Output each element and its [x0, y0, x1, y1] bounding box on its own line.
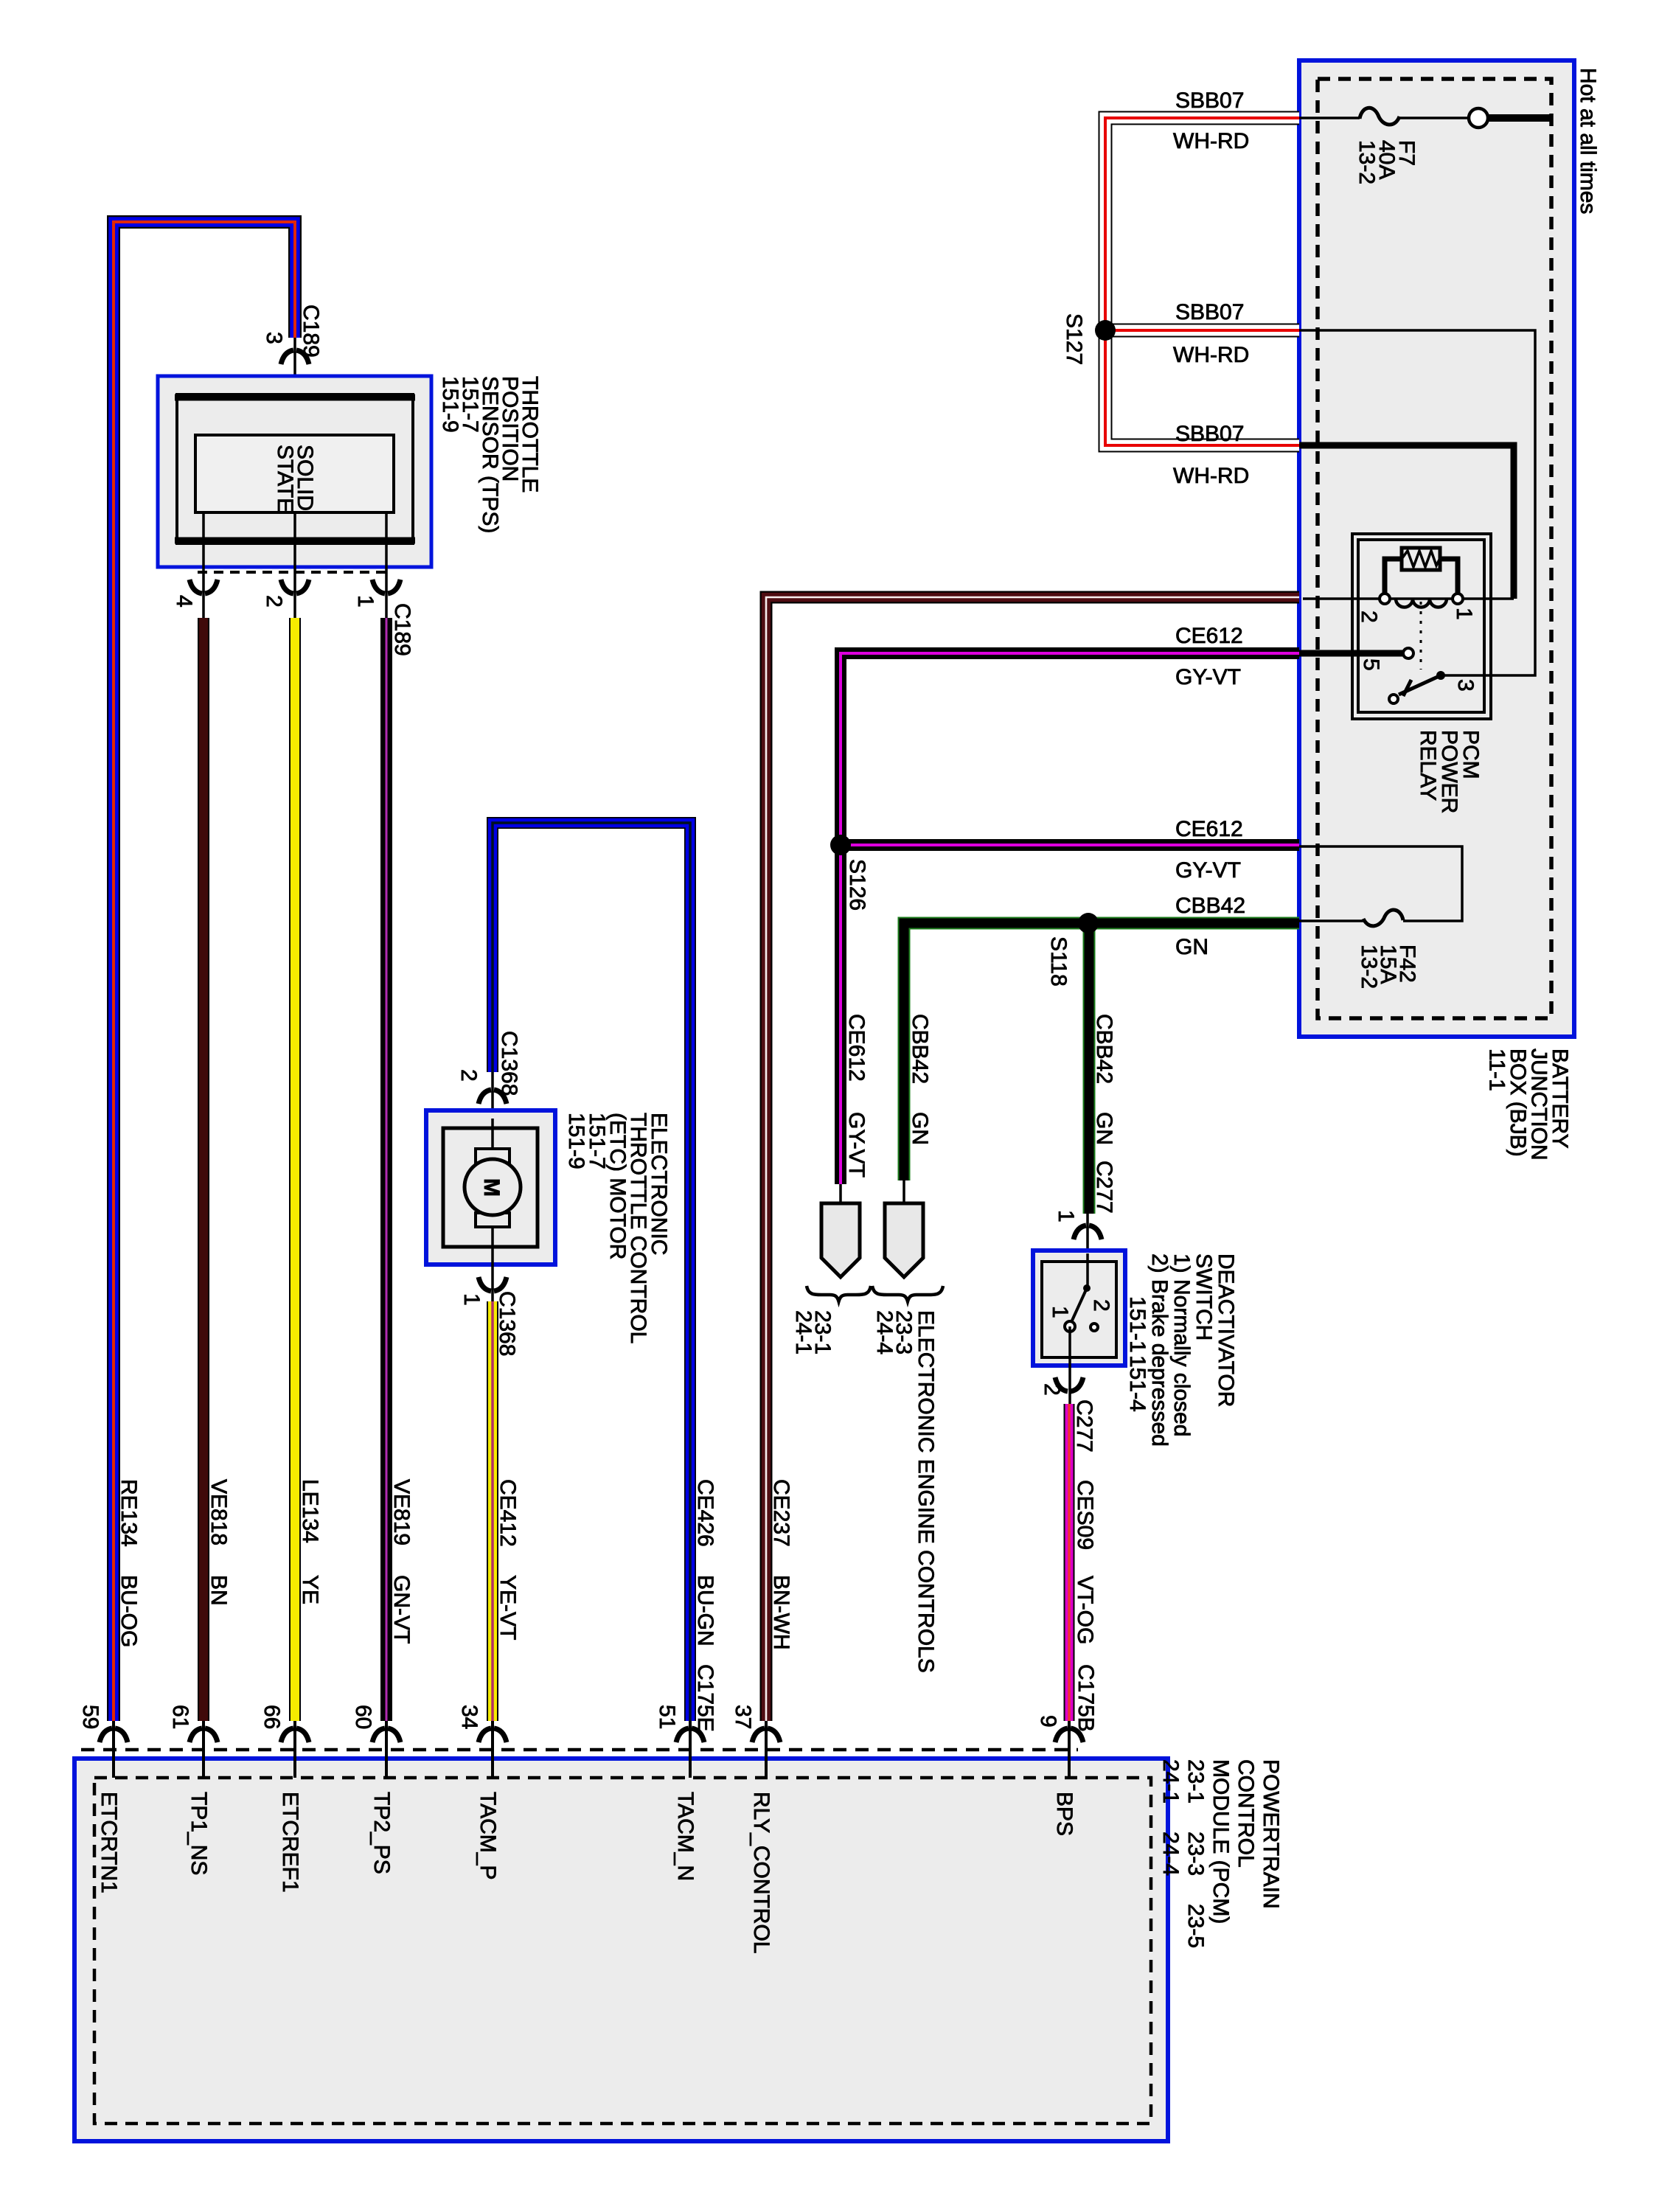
- relay pin numbers: [1357, 611, 1381, 623]
- svg-text:YE: YE: [298, 1575, 322, 1604]
- svg-text:WH-RD: WH-RD: [1173, 129, 1249, 153]
- fuse F7 40A: [1299, 108, 1553, 184]
- svg-text:3: 3: [262, 332, 286, 344]
- svg-text:CES09: CES09: [1073, 1480, 1097, 1550]
- svg-text:BU-GN: BU-GN: [693, 1575, 717, 1646]
- svg-text:C175B: C175B: [1074, 1664, 1098, 1732]
- svg-text:C277: C277: [1072, 1399, 1096, 1453]
- SBB07 / WH-RD labels: [1173, 88, 1249, 488]
- svg-text:C189: C189: [390, 603, 414, 656]
- svg-text:BN-WH: BN-WH: [769, 1575, 793, 1650]
- deactivator switch contacts: [1048, 1253, 1113, 1332]
- svg-text:151-4: 151-4: [1125, 1355, 1150, 1412]
- wire CE426 BU-GN (TACM_N): [493, 823, 690, 1721]
- svg-text:1: 1: [1048, 1306, 1072, 1318]
- svg-text:SBB07: SBB07: [1175, 422, 1244, 446]
- svg-text:BU-OG: BU-OG: [116, 1575, 141, 1647]
- wire VE819 GN-VT (TP2_PS): [380, 618, 392, 1721]
- svg-text:POWERTRAIN: POWERTRAIN: [1259, 1759, 1283, 1909]
- svg-text:2: 2: [1040, 1383, 1064, 1396]
- motor M symbol: [465, 1119, 521, 1301]
- PCM power relay: [1299, 534, 1514, 813]
- CE612 labels (vertical run): [844, 1014, 869, 1178]
- svg-text:24-4: 24-4: [872, 1310, 897, 1354]
- deactivator switch name: [1125, 1253, 1238, 1447]
- svg-text:11-1: 11-1: [1485, 1048, 1509, 1091]
- svg-text:C1368: C1368: [497, 1031, 521, 1096]
- svg-text:3: 3: [1453, 679, 1478, 692]
- svg-text:SBB07: SBB07: [1175, 300, 1244, 324]
- svg-text:S118: S118: [1046, 936, 1071, 987]
- svg-text:CBB42: CBB42: [908, 1014, 932, 1084]
- svg-text:51: 51: [655, 1705, 679, 1729]
- wire CE237 BN-WH (RLY_CONTROL): [766, 597, 1299, 1721]
- PCM pin 61 TP1_NS: [168, 1705, 218, 1875]
- relay switch blade pin3-pin5: [1420, 602, 1422, 669]
- svg-text:MODULE (PCM): MODULE (PCM): [1208, 1759, 1233, 1924]
- svg-text:S126: S126: [845, 859, 869, 911]
- splice S126: [845, 859, 869, 911]
- connector C189 pin 3: [262, 305, 323, 435]
- wire CE612 GY-VT to F42: [841, 817, 1299, 883]
- svg-text:2: 2: [1089, 1299, 1113, 1312]
- PCM pin 59 ETCRTN1: [78, 1705, 128, 1893]
- svg-text:1: 1: [459, 1293, 484, 1306]
- svg-text:1: 1: [1452, 608, 1476, 620]
- svg-text:13-2: 13-2: [1354, 140, 1379, 184]
- svg-text:GY-VT: GY-VT: [844, 1112, 869, 1178]
- svg-text:Hot at all times: Hot at all times: [1576, 68, 1600, 214]
- relay resistor: [1402, 548, 1440, 570]
- svg-text:23-5: 23-5: [1183, 1904, 1208, 1948]
- svg-text:TACM_P: TACM_P: [476, 1792, 500, 1879]
- connector to electronic engine controls (CBB42): [885, 1180, 923, 1277]
- svg-text:59: 59: [78, 1705, 102, 1729]
- PCM pin 60 TP2_PS: [351, 1705, 400, 1874]
- wire CE612 GY-VT from relay pin 5: [841, 653, 1299, 1184]
- svg-text:STATE: STATE: [273, 445, 297, 512]
- svg-text:CBB42: CBB42: [1092, 1014, 1116, 1084]
- svg-text:2: 2: [262, 595, 286, 608]
- splice S127: [1062, 313, 1086, 365]
- CBB42 labels (vertical run): [908, 1014, 932, 1145]
- PCM pin 34 TACM_P: [457, 1705, 507, 1879]
- SBB07 branch 2 to relay pin 3: [1299, 330, 1535, 675]
- svg-text:M: M: [479, 1178, 504, 1197]
- svg-text:DEACTIVATOR: DEACTIVATOR: [1214, 1253, 1238, 1407]
- PCM name label: [1158, 1759, 1283, 1948]
- svg-text:TP2_PS: TP2_PS: [369, 1792, 394, 1874]
- svg-text:VE819: VE819: [389, 1479, 414, 1545]
- splice dot S126: [830, 835, 851, 855]
- PCM pin 37 RLY_CONTROL: [731, 1705, 780, 1954]
- wire RE134 BU-OG (ETCRTN1 / TPS pin 3): [114, 222, 295, 1721]
- wire CBB42 GN to deactivator switch: [1089, 923, 1116, 1214]
- svg-text:CE612: CE612: [1175, 817, 1243, 841]
- svg-text:C189: C189: [299, 305, 323, 358]
- relay coil: [1303, 597, 1514, 600]
- connector C277 pin 1: [1054, 1210, 1102, 1253]
- svg-text:SWITCH: SWITCH: [1192, 1253, 1216, 1340]
- svg-text:151-1: 151-1: [1125, 1296, 1150, 1353]
- svg-text:5: 5: [1359, 658, 1383, 671]
- svg-text:C277: C277: [1092, 1161, 1116, 1214]
- svg-text:ELECTRONIC ENGINE CONTROLS: ELECTRONIC ENGINE CONTROLS: [914, 1310, 938, 1673]
- wire LE134 YE (ETCREF1): [289, 618, 301, 1721]
- svg-text:GN: GN: [908, 1112, 932, 1145]
- svg-text:CE237: CE237: [769, 1479, 793, 1547]
- svg-text:WH-RD: WH-RD: [1173, 343, 1249, 367]
- relay name: [1416, 730, 1483, 813]
- splice S118: [1046, 936, 1071, 987]
- svg-text:GY-VT: GY-VT: [1175, 858, 1241, 883]
- svg-text:60: 60: [351, 1705, 375, 1729]
- SBB07 branch 3 to relay coil pin 1: [1299, 445, 1514, 599]
- svg-text:WH-RD: WH-RD: [1173, 464, 1249, 488]
- svg-text:151-9: 151-9: [564, 1113, 588, 1169]
- braces + page refs: [791, 1286, 943, 1354]
- svg-text:CE612: CE612: [844, 1014, 869, 1082]
- ETC motor name: [564, 1113, 671, 1343]
- svg-text:37: 37: [731, 1705, 755, 1729]
- svg-text:ETCRTN1: ETCRTN1: [97, 1792, 121, 1893]
- svg-text:SBB07: SBB07: [1175, 88, 1244, 113]
- svg-text:RELAY: RELAY: [1416, 730, 1440, 801]
- svg-text:24-1: 24-1: [1158, 1759, 1183, 1804]
- connector C1368 pin 1: [459, 1277, 519, 1356]
- electronic engine controls label: [914, 1310, 938, 1673]
- connector C189 pins 4 2 1: [172, 580, 414, 656]
- svg-text:1) Normally closed: 1) Normally closed: [1169, 1253, 1194, 1436]
- svg-text:151-9: 151-9: [438, 376, 462, 433]
- svg-text:CE412: CE412: [495, 1479, 520, 1547]
- svg-text:BPS: BPS: [1052, 1792, 1077, 1836]
- connector to electronic engine controls (CE612): [821, 1184, 860, 1277]
- svg-text:CBB42: CBB42: [1175, 894, 1245, 918]
- svg-text:2: 2: [1357, 611, 1381, 623]
- svg-text:GN: GN: [1175, 935, 1208, 959]
- PCM pin 51 TACM_N: [655, 1705, 704, 1881]
- battery junction box (BJB) outline: [1299, 60, 1574, 1037]
- svg-text:2) Brake depressed: 2) Brake depressed: [1147, 1253, 1172, 1447]
- svg-text:RE134: RE134: [116, 1479, 141, 1547]
- throttle position sensor box: [158, 376, 431, 567]
- svg-text:CONTROL: CONTROL: [1234, 1759, 1258, 1868]
- svg-text:BN: BN: [206, 1575, 231, 1606]
- connector C277 pin 2: [1040, 1326, 1096, 1453]
- connector C1368 pin 2: [456, 1031, 521, 1119]
- fuse F42 15A: [1299, 846, 1462, 989]
- splice dot S118: [1078, 913, 1099, 933]
- deactivator switch box: [1033, 1251, 1125, 1366]
- svg-text:23-3: 23-3: [1183, 1832, 1208, 1876]
- Hot at all times label: [1576, 68, 1600, 214]
- svg-text:1: 1: [1054, 1210, 1078, 1222]
- wire SBB07 WH-RD bus (3 branches): [1105, 118, 1299, 445]
- svg-text:CE612: CE612: [1175, 624, 1243, 648]
- wire CBB42 GN from F42: [904, 894, 1299, 1180]
- svg-text:S127: S127: [1062, 313, 1086, 365]
- svg-text:23-1: 23-1: [1183, 1759, 1208, 1804]
- svg-text:LE134: LE134: [298, 1479, 322, 1543]
- svg-text:2: 2: [456, 1069, 481, 1082]
- wire CE412 YE-VT (TACM_P): [487, 1301, 498, 1721]
- splice dot S127: [1095, 320, 1116, 341]
- electronic throttle control motor box: [426, 1110, 555, 1265]
- PCM connector dashed line: [81, 1748, 1078, 1752]
- svg-text:VT-OG: VT-OG: [1073, 1576, 1097, 1644]
- svg-text:GN-VT: GN-VT: [389, 1575, 414, 1644]
- BJB name label: [1485, 1048, 1573, 1161]
- svg-text:YE-VT: YE-VT: [495, 1575, 520, 1640]
- svg-text:ETCREF1: ETCREF1: [278, 1792, 302, 1893]
- wire name labels: [116, 1479, 793, 1732]
- svg-text:VE818: VE818: [206, 1479, 231, 1545]
- svg-text:24-4: 24-4: [1158, 1832, 1183, 1876]
- svg-text:RLY_CONTROL: RLY_CONTROL: [749, 1792, 773, 1954]
- svg-text:4: 4: [172, 595, 196, 608]
- TPS pin leads: [198, 512, 392, 618]
- powertrain control module box: [74, 1759, 1168, 2141]
- PCM pin 9 BPS: [1036, 1715, 1083, 1836]
- wire VE818 BN (TP1_NS): [198, 618, 209, 1721]
- svg-text:C175E: C175E: [693, 1664, 717, 1732]
- svg-text:13-2: 13-2: [1357, 945, 1381, 989]
- svg-text:24-1: 24-1: [791, 1310, 815, 1354]
- svg-text:TACM_N: TACM_N: [673, 1792, 698, 1881]
- svg-text:34: 34: [457, 1705, 481, 1729]
- TPS name: [438, 376, 542, 533]
- svg-text:CE426: CE426: [693, 1479, 717, 1547]
- svg-text:66: 66: [260, 1705, 284, 1729]
- svg-text:GN: GN: [1092, 1112, 1116, 1145]
- svg-text:GY-VT: GY-VT: [1175, 665, 1241, 689]
- wire CES09 VT-OG (BPS): [1069, 1404, 1098, 1732]
- svg-text:TP1_NS: TP1_NS: [187, 1792, 211, 1875]
- CE612 labels (horizontal run): [1175, 624, 1243, 689]
- svg-text:9: 9: [1036, 1715, 1060, 1728]
- PCM pin 66 ETCREF1: [260, 1705, 309, 1893]
- svg-text:1: 1: [353, 595, 378, 608]
- svg-text:61: 61: [168, 1705, 192, 1729]
